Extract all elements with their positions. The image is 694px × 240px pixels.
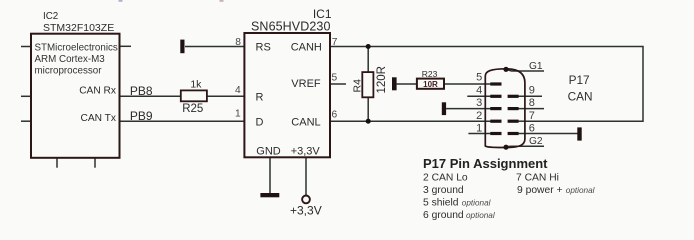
svg-text:GND: GND [256, 146, 281, 158]
svg-text:PB9: PB9 [130, 109, 153, 123]
svg-text:5: 5 [476, 72, 482, 84]
svg-text:PB8: PB8 [130, 84, 153, 98]
svg-text:P17: P17 [569, 73, 590, 87]
svg-text:8: 8 [529, 97, 535, 109]
svg-text:3: 3 [476, 97, 482, 109]
svg-text:CANL: CANL [291, 116, 320, 128]
svg-text:9: 9 [529, 85, 535, 97]
svg-text:5 shield: 5 shield [423, 198, 459, 209]
svg-text:R23: R23 [422, 69, 438, 79]
svg-text:5: 5 [332, 73, 338, 84]
svg-text:+3,3V: +3,3V [291, 146, 321, 158]
svg-text:1k: 1k [190, 78, 202, 90]
svg-text:optional: optional [466, 211, 495, 220]
svg-text:2 CAN Lo: 2 CAN Lo [423, 173, 468, 184]
svg-text:P17 Pin Assignment: P17 Pin Assignment [423, 156, 548, 171]
svg-text:CAN Tx: CAN Tx [81, 113, 116, 124]
svg-text:9 power +: 9 power + [517, 185, 563, 196]
svg-text:STM32F103ZE: STM32F103ZE [43, 22, 114, 34]
svg-text:IC2: IC2 [43, 11, 58, 22]
svg-text:R25: R25 [182, 103, 203, 115]
svg-text:120R: 120R [376, 66, 388, 94]
svg-text:6: 6 [332, 110, 338, 121]
svg-text:8: 8 [235, 37, 241, 48]
svg-text:SN65HVD230: SN65HVD230 [251, 20, 331, 34]
svg-text:ARM Cortex-M3: ARM Cortex-M3 [35, 54, 106, 65]
svg-text:optional: optional [566, 186, 595, 195]
svg-text:10R: 10R [423, 80, 438, 89]
svg-text:optional: optional [462, 199, 491, 208]
svg-text:1: 1 [235, 108, 241, 119]
svg-text:STMicroelectronics: STMicroelectronics [35, 43, 118, 54]
svg-text:microprocessor: microprocessor [35, 66, 103, 77]
svg-text:CANH: CANH [291, 41, 322, 53]
svg-text:+3,3V: +3,3V [290, 204, 322, 218]
svg-text:R4: R4 [351, 79, 363, 93]
svg-text:CAN: CAN [568, 89, 593, 103]
svg-text:7: 7 [332, 37, 338, 48]
svg-text:VREF: VREF [291, 78, 321, 90]
svg-text:1: 1 [476, 123, 482, 135]
svg-text:2: 2 [476, 110, 482, 122]
svg-text:7: 7 [529, 110, 535, 122]
svg-text:7 CAN Hi: 7 CAN Hi [516, 173, 559, 184]
svg-text:3 ground: 3 ground [423, 185, 464, 196]
svg-text:D: D [256, 116, 264, 128]
svg-text:4: 4 [235, 85, 241, 96]
svg-text:G1: G1 [529, 61, 543, 72]
svg-text:RS: RS [256, 41, 271, 53]
svg-text:R: R [256, 91, 264, 103]
svg-text:G2: G2 [529, 136, 543, 147]
svg-text:6 ground: 6 ground [423, 210, 464, 221]
svg-text:4: 4 [476, 84, 482, 96]
svg-text:6: 6 [529, 122, 535, 134]
svg-text:CAN Rx: CAN Rx [79, 86, 116, 97]
